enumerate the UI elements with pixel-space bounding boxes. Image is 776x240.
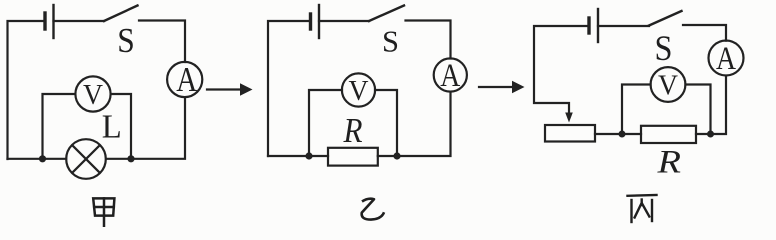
lamp L circle (66, 139, 106, 179)
switch S3 arm (649, 11, 682, 26)
voltmeter branch right wire circuit2 (375, 90, 397, 156)
voltmeter V1 circle (75, 76, 110, 111)
battery circuit2: long plate (318, 5, 320, 38)
voltmeter V3 circle (651, 67, 686, 102)
svg-text:R: R (343, 111, 363, 150)
wire switch to top-right corner circuit2 (406, 21, 451, 59)
switch S2 arm (369, 6, 404, 22)
svg-text:L: L (102, 109, 122, 146)
wire switch to top-right corner circuit3 (683, 25, 726, 41)
arrow 1 head (240, 83, 253, 96)
voltmeter branch right wire circuit3 (686, 85, 711, 135)
node dot right junction (127, 155, 134, 162)
arrow 1 shaft (207, 88, 241, 90)
resistor R (circuit2) rectangle (328, 148, 378, 166)
wire battery to switch circuit2 (319, 20, 369, 22)
svg-text:S: S (655, 28, 673, 68)
wire ammeter to bottom-right corner circuit2 (378, 92, 451, 156)
node dot right junction circuit2 (393, 152, 400, 159)
wire rheostat to resistor R circuit3 (595, 133, 641, 135)
wire switch right contact to top-right corner (139, 21, 185, 63)
rheostat rectangle (545, 125, 595, 142)
lamp L cross stroke 1 (72, 145, 100, 173)
label 丙 (hand-drawn glyph) (628, 195, 657, 222)
ammeter A2 circle (434, 58, 467, 91)
arrow 2 shaft (479, 86, 513, 88)
resistor R (circuit3) rectangle (641, 126, 696, 143)
label 乙 (hand-drawn glyph) (362, 199, 384, 220)
wire ammeter down to bottom-right junction (696, 76, 726, 134)
svg-text:R: R (656, 145, 681, 181)
voltmeter branch left wire (43, 94, 76, 159)
ammeter A1 circle (167, 62, 202, 97)
wire bottom-left (lamp to left wire) (8, 158, 67, 160)
wire battery to switch (54, 20, 105, 22)
node dot left junction circuit3 (619, 131, 626, 138)
voltmeter branch left wire circuit2 (309, 90, 342, 156)
switch S1 arm (104, 6, 138, 22)
voltmeter V2 circle (342, 73, 375, 106)
svg-text:V: V (349, 75, 369, 107)
node dot right junction circuit3 (707, 131, 714, 138)
wire top-left circuit2 (268, 21, 310, 156)
voltmeter branch right wire (111, 94, 131, 159)
wire battery to switch circuit3 (598, 25, 649, 27)
battery circuit3: short plate (587, 18, 590, 33)
battery (cell) circuit1: long plate (52, 5, 54, 38)
svg-text:A: A (176, 60, 198, 99)
ammeter A3 circle (709, 41, 744, 76)
rheostat slider arrow (wire with arrowhead) (565, 113, 573, 123)
wire ammeter to bottom-right corner (106, 97, 185, 159)
battery circuit2: short plate (309, 14, 312, 29)
lamp L cross stroke 2 (72, 145, 100, 173)
svg-text:V: V (83, 79, 103, 111)
svg-text:S: S (382, 24, 399, 59)
svg-text:A: A (716, 41, 736, 77)
battery circuit3: long plate (597, 9, 599, 42)
svg-text:V: V (658, 70, 678, 102)
wire top-left circuit3 (534, 26, 589, 114)
voltmeter branch left wire circuit3 (622, 85, 651, 135)
battery (cell) circuit1: short plate (43, 13, 46, 29)
svg-text:S: S (117, 21, 135, 60)
arrow 2 head (512, 81, 525, 94)
svg-text:A: A (440, 58, 460, 94)
node dot left junction (39, 155, 46, 162)
label 甲 (hand-drawn glyph) (93, 198, 114, 226)
wire resistor to bottom-left circuit2 (268, 155, 328, 157)
wire top-left (battery to left corner) (8, 21, 46, 159)
node dot left junction circuit2 (305, 152, 312, 159)
